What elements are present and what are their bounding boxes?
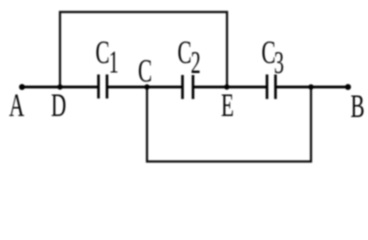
node E junction dot <box>224 84 229 89</box>
label C1 <box>96 33 119 79</box>
capacitor C2 plates <box>183 75 194 99</box>
label C3 <box>262 33 284 80</box>
svg-text:D: D <box>51 86 66 123</box>
node B terminal dot <box>345 84 351 90</box>
svg-text:C: C <box>138 52 152 89</box>
svg-text:3: 3 <box>274 44 284 80</box>
node C junction dot <box>144 84 149 89</box>
node D junction dot <box>57 84 62 89</box>
svg-text:C: C <box>96 33 110 70</box>
svg-text:E: E <box>221 86 234 123</box>
capacitor C1 plates <box>99 75 108 99</box>
svg-text:C: C <box>178 33 192 70</box>
wire: C2 right plate to C3 left plate <box>193 86 267 89</box>
svg-text:A: A <box>9 86 24 123</box>
svg-text:1: 1 <box>109 44 119 80</box>
wire: C1 right plate to C2 left plate <box>107 86 183 89</box>
svg-text:2: 2 <box>191 44 201 80</box>
wire: bottom loop from node C down, across, up to junction right of C3 <box>147 87 311 162</box>
capacitor C3 plates <box>267 75 276 100</box>
wire: C3 right plate to B <box>276 86 349 89</box>
wire: main horizontal A to C1 left plate <box>22 86 99 89</box>
node A terminal dot <box>19 84 25 90</box>
label C2 <box>178 33 201 80</box>
svg-text:B: B <box>351 87 365 124</box>
wire: top loop from node D up, across, down to node E <box>60 12 227 87</box>
junction dot where bottom loop meets main wire <box>308 84 313 89</box>
